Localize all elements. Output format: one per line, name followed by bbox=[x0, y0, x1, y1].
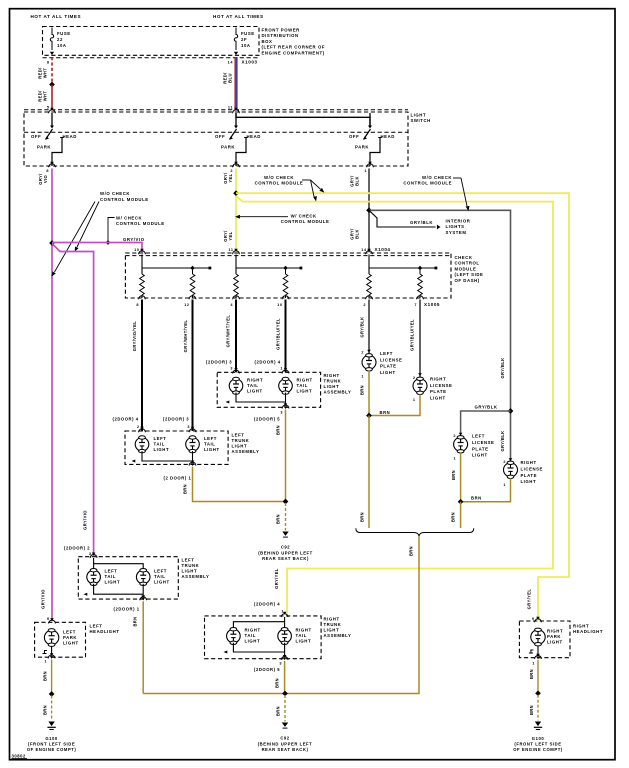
svg-text:W/O CHECK: W/O CHECK bbox=[422, 175, 452, 180]
svg-text:PARK: PARK bbox=[63, 635, 77, 640]
svg-text:1: 1 bbox=[364, 169, 367, 173]
svg-text:8: 8 bbox=[47, 61, 50, 65]
connector switch out 3 bbox=[367, 164, 374, 167]
svg-text:INTERIOR: INTERIOR bbox=[446, 219, 471, 224]
wire GRY/VIO from switch bbox=[51, 169, 53, 622]
node yellow tee bbox=[233, 190, 239, 196]
connector entry arrowheads bbox=[50, 108, 540, 660]
svg-text:LIGHT: LIGHT bbox=[411, 113, 427, 118]
svg-text:GRY/YEL: GRY/YEL bbox=[527, 589, 532, 610]
svg-text:FUSE: FUSE bbox=[57, 31, 71, 36]
svg-text:LIGHT: LIGHT bbox=[324, 628, 340, 633]
wire GRY/YEL from switch bbox=[235, 169, 237, 253]
svg-text:BRN: BRN bbox=[275, 678, 280, 688]
wire GRY/VIO branch to left trunk bbox=[52, 244, 94, 557]
svg-text:LEFT: LEFT bbox=[105, 569, 118, 574]
svg-text:GRY/VIO/YEL: GRY/VIO/YEL bbox=[132, 321, 137, 352]
lamp LEFT PARK LIGHT bbox=[44, 629, 58, 647]
svg-text:BRN: BRN bbox=[409, 546, 414, 556]
wire trunk L2 internal bottom bbox=[94, 584, 144, 594]
svg-text:PARK: PARK bbox=[221, 145, 235, 150]
svg-text:SYSTEM: SYSTEM bbox=[446, 230, 467, 235]
svg-text:RIGHT: RIGHT bbox=[430, 377, 446, 382]
wire RED/WHT lower bbox=[51, 85, 53, 111]
connector switch out 1 bbox=[49, 164, 56, 167]
wire GRY/BLK from switch bbox=[368, 169, 370, 253]
svg-text:LEFT: LEFT bbox=[204, 436, 217, 441]
svg-text:GRY/BLU/YEL: GRY/BLU/YEL bbox=[410, 319, 415, 351]
resistor C2 bbox=[419, 268, 421, 274]
wire RED/WHT upper bbox=[51, 57, 53, 85]
svg-text:TAIL: TAIL bbox=[245, 633, 256, 638]
node GRY/VIO tee bbox=[49, 240, 55, 246]
wire GRY/YEL branch inner bbox=[236, 196, 553, 614]
svg-text:BRN: BRN bbox=[529, 705, 534, 715]
lamp RIGHT TAIL LIGHT 3 bbox=[227, 628, 241, 645]
connector switch out 2 bbox=[233, 164, 240, 167]
svg-text:LIGHT: LIGHT bbox=[182, 569, 198, 574]
wire BRN left ground upper bbox=[51, 659, 53, 694]
label CHECK CONTROL MODULE bbox=[455, 255, 484, 283]
svg-text:(2DOOR) 4: (2DOOR) 4 bbox=[113, 417, 139, 422]
wire switch feed to third pole bbox=[236, 113, 370, 126]
svg-text:PARK: PARK bbox=[355, 145, 369, 150]
svg-text:2: 2 bbox=[230, 169, 233, 173]
svg-text:14: 14 bbox=[228, 61, 234, 65]
svg-text:RIGHT: RIGHT bbox=[521, 460, 537, 465]
svg-text:HEAD: HEAD bbox=[63, 134, 77, 139]
lamp LEFT LICENSE PLATE LIGHT bbox=[362, 354, 376, 371]
svg-text:HOT AT ALL TIMES: HOT AT ALL TIMES bbox=[31, 14, 82, 19]
connector right headlight out bbox=[535, 656, 542, 659]
svg-text:LIGHT: LIGHT bbox=[430, 395, 446, 400]
svg-text:LIGHT: LIGHT bbox=[297, 389, 313, 394]
svg-text:BRN: BRN bbox=[133, 616, 138, 626]
svg-text:PLATE: PLATE bbox=[521, 473, 538, 478]
svg-text:LIGHT: LIGHT bbox=[380, 370, 396, 375]
connector module out pin 10 bbox=[282, 296, 289, 299]
svg-text:2: 2 bbox=[413, 376, 416, 380]
svg-text:DISTRIBUTION: DISTRIBUTION bbox=[262, 33, 299, 38]
left trunk light assembly box 2 bbox=[78, 557, 178, 599]
svg-text:PARK: PARK bbox=[547, 634, 561, 639]
svg-text:FUSE: FUSE bbox=[241, 31, 255, 36]
svg-text:(2DOOR) 4: (2DOOR) 4 bbox=[255, 360, 281, 365]
label W/O CHECK CONTROL MODULE center bbox=[255, 175, 326, 202]
svg-text:CONTROL MODULE: CONTROL MODULE bbox=[281, 219, 330, 224]
left headlight box bbox=[35, 622, 86, 657]
light switch inner dashed rail bbox=[24, 131, 408, 133]
svg-text:3: 3 bbox=[230, 367, 233, 371]
wire GRY/BLK branch to interior lights bbox=[369, 210, 436, 227]
svg-text:RIGHT: RIGHT bbox=[247, 378, 263, 383]
wire trunk R internal bbox=[236, 393, 286, 402]
svg-text:GRY/BLK: GRY/BLK bbox=[360, 316, 365, 337]
svg-text:C92: C92 bbox=[280, 736, 289, 741]
svg-text:YEL: YEL bbox=[228, 173, 233, 182]
wire GRY/YEL branch outer bbox=[236, 193, 569, 620]
svg-text:(BEHIND UPPER LEFT: (BEHIND UPPER LEFT bbox=[258, 741, 313, 746]
node BRN license pair1 bbox=[366, 413, 372, 419]
connector module pin 14 bbox=[366, 251, 373, 254]
wire BRN to C92 bbox=[285, 503, 287, 531]
svg-text:22: 22 bbox=[57, 37, 63, 42]
svg-text:CHECK: CHECK bbox=[455, 255, 473, 260]
svg-text:30802: 30802 bbox=[12, 754, 27, 759]
svg-text:TAIL: TAIL bbox=[204, 442, 215, 447]
resistor A2 bbox=[192, 268, 194, 274]
label W/O CHECK CONTROL MODULE right bbox=[403, 175, 470, 212]
svg-text:ASSEMBLY: ASSEMBLY bbox=[324, 390, 352, 395]
svg-text:GRY/BLK: GRY/BLK bbox=[475, 405, 498, 410]
connector module pin 11 bbox=[233, 251, 240, 254]
svg-text:WHT: WHT bbox=[43, 68, 48, 79]
wire BRN license D down bbox=[461, 478, 511, 501]
svg-text:CONTROL MODULE: CONTROL MODULE bbox=[100, 197, 149, 202]
svg-text:X1004: X1004 bbox=[375, 247, 391, 252]
svg-text:1: 1 bbox=[44, 660, 47, 664]
svg-text:9: 9 bbox=[47, 617, 50, 621]
svg-text:OF ENGINE COMPT): OF ENGINE COMPT) bbox=[513, 747, 563, 752]
svg-text:(FRONT LEFT SIDE: (FRONT LEFT SIDE bbox=[28, 742, 75, 747]
svg-text:TAIL: TAIL bbox=[154, 442, 165, 447]
svg-text:2: 2 bbox=[361, 351, 364, 355]
connector module out pin 4 bbox=[233, 296, 240, 299]
wire trunk R2 internal bottom bbox=[233, 643, 284, 652]
svg-text:(2DOOR) 3: (2DOOR) 3 bbox=[206, 360, 232, 365]
svg-text:(2DOOR) 5: (2DOOR) 5 bbox=[254, 667, 280, 672]
svg-text:CONTROL: CONTROL bbox=[455, 261, 480, 266]
svg-text:10A: 10A bbox=[241, 43, 251, 48]
svg-text:11: 11 bbox=[228, 248, 233, 252]
svg-text:LIGHT: LIGHT bbox=[472, 453, 488, 458]
svg-text:BRN: BRN bbox=[451, 512, 456, 522]
svg-text:GRY/WHT/YEL: GRY/WHT/YEL bbox=[183, 320, 188, 353]
svg-text:11: 11 bbox=[228, 106, 233, 110]
svg-text:VIO: VIO bbox=[43, 174, 48, 183]
connector trunk R out bbox=[282, 405, 289, 408]
svg-text:OFF: OFF bbox=[349, 134, 359, 139]
connector trunk L out bbox=[189, 462, 196, 465]
svg-text:(FRONT LEFT SIDE: (FRONT LEFT SIDE bbox=[514, 742, 561, 747]
connector left headlight in bbox=[49, 620, 56, 623]
svg-text:1: 1 bbox=[413, 398, 416, 402]
svg-text:PLATE: PLATE bbox=[430, 389, 447, 394]
svg-text:BRN: BRN bbox=[529, 669, 534, 679]
lamp LEFT TAIL LIGHT 3 bbox=[87, 569, 101, 586]
svg-text:GRY/BLK: GRY/BLK bbox=[410, 220, 433, 225]
wire GRY/BLK to license lights bbox=[369, 210, 511, 462]
svg-text:10A: 10A bbox=[57, 43, 67, 48]
svg-text:LICENSE: LICENSE bbox=[430, 383, 452, 388]
svg-text:2: 2 bbox=[363, 303, 366, 307]
node BRN license pair2 bbox=[458, 499, 464, 505]
svg-text:LIGHT: LIGHT bbox=[247, 389, 263, 394]
lamp RIGHT LICENSE PLATE LIGHT 2 bbox=[504, 461, 518, 478]
svg-text:(2DOOR) 2: (2DOOR) 2 bbox=[64, 546, 90, 551]
svg-text:3: 3 bbox=[280, 411, 283, 415]
svg-text:LEFT: LEFT bbox=[380, 351, 393, 356]
ground G100 right bbox=[535, 722, 541, 727]
svg-text:MODULE: MODULE bbox=[455, 266, 477, 271]
svg-text:PLATE: PLATE bbox=[472, 446, 489, 451]
svg-text:W/ CHECK: W/ CHECK bbox=[116, 216, 142, 221]
wire trunk L internal bbox=[142, 451, 193, 461]
left trunk light assembly box bbox=[125, 431, 228, 464]
switch pole 3 bbox=[349, 113, 395, 166]
wire BRN to C92 2 bbox=[284, 695, 286, 722]
splice node bbox=[49, 82, 55, 88]
right headlight box bbox=[519, 621, 570, 658]
svg-text:LICENSE: LICENSE bbox=[380, 357, 402, 362]
svg-text:RIGHT: RIGHT bbox=[297, 378, 313, 383]
svg-text:LEFT: LEFT bbox=[182, 558, 195, 563]
svg-text:TAIL: TAIL bbox=[247, 383, 258, 388]
connector trunk R2 out bbox=[281, 657, 288, 660]
connector trunk R in 1 bbox=[233, 370, 240, 373]
node GRY/BLK tee bbox=[366, 207, 372, 213]
svg-text:9: 9 bbox=[532, 617, 535, 621]
lamp LEFT TAIL LIGHT 1 bbox=[135, 436, 149, 453]
svg-text:GRY/BLU/YEL: GRY/BLU/YEL bbox=[276, 318, 281, 350]
svg-text:BRN: BRN bbox=[43, 671, 48, 681]
svg-text:FRONT POWER: FRONT POWER bbox=[262, 28, 301, 33]
svg-text:GRY/BLK: GRY/BLK bbox=[500, 357, 505, 378]
svg-text:LEFT: LEFT bbox=[90, 624, 103, 629]
svg-text:W/O CHECK: W/O CHECK bbox=[100, 191, 130, 196]
brace collecting BRN bbox=[356, 528, 474, 536]
module internal bus A bbox=[141, 255, 143, 275]
wire BRN from brace bbox=[143, 536, 419, 694]
connector trunk R2 in bbox=[281, 614, 288, 617]
light switch box bbox=[24, 112, 408, 166]
wire BRN license A down bbox=[368, 371, 370, 416]
svg-text:GRY/VIO: GRY/VIO bbox=[41, 589, 46, 609]
connector C92 bbox=[282, 532, 288, 536]
svg-text:1: 1 bbox=[361, 375, 364, 379]
svg-text:CONTROL MODULE: CONTROL MODULE bbox=[255, 181, 304, 186]
svg-text:OFF: OFF bbox=[31, 134, 41, 139]
svg-text:W/ CHECK: W/ CHECK bbox=[291, 214, 317, 219]
svg-text:TRUNK: TRUNK bbox=[324, 379, 342, 384]
svg-text:TRUNK: TRUNK bbox=[324, 622, 342, 627]
wire BRN license C down bbox=[460, 453, 462, 502]
svg-text:G100: G100 bbox=[532, 736, 545, 741]
svg-text:RIGHT: RIGHT bbox=[245, 628, 261, 633]
wire BRN right ground upper bbox=[537, 660, 539, 693]
resistor B1 bbox=[234, 274, 239, 295]
right trunk light assembly box 2 bbox=[205, 616, 322, 659]
node bus B tap bbox=[283, 266, 288, 271]
svg-text:1: 1 bbox=[453, 457, 456, 461]
wire left park lamp out bbox=[45, 651, 48, 654]
wire GRY/BLU/YEL bbox=[419, 300, 421, 378]
connector trunk L in 2 bbox=[189, 429, 196, 432]
svg-text:HOT AT ALL TIMES: HOT AT ALL TIMES bbox=[213, 14, 264, 19]
svg-text:(LEFT SIDE: (LEFT SIDE bbox=[455, 272, 484, 277]
svg-text:BLK: BLK bbox=[355, 229, 360, 239]
connector row module top bbox=[125, 255, 451, 257]
svg-text:LIGHT: LIGHT bbox=[245, 639, 261, 644]
svg-text:RIGHT: RIGHT bbox=[324, 617, 340, 622]
svg-text:PARK: PARK bbox=[37, 145, 51, 150]
connector right headlight in bbox=[535, 619, 542, 622]
svg-text:BLK: BLK bbox=[355, 176, 360, 186]
svg-text:CONTROL MODULE: CONTROL MODULE bbox=[403, 181, 452, 186]
svg-text:3: 3 bbox=[187, 425, 190, 429]
svg-text:C92: C92 bbox=[281, 545, 290, 550]
svg-text:BRN: BRN bbox=[43, 705, 48, 715]
svg-text:X1003: X1003 bbox=[242, 60, 258, 65]
svg-text:BRN: BRN bbox=[380, 410, 391, 415]
svg-text:2: 2 bbox=[453, 434, 456, 438]
svg-text:BRN: BRN bbox=[276, 706, 281, 716]
svg-text:LEFT: LEFT bbox=[154, 436, 167, 441]
svg-text:LIGHT: LIGHT bbox=[521, 479, 537, 484]
svg-text:TAIL: TAIL bbox=[297, 383, 308, 388]
wire GRY/VIO/YEL bbox=[141, 300, 143, 432]
svg-text:BRN: BRN bbox=[276, 425, 281, 435]
svg-text:BRN: BRN bbox=[360, 385, 365, 395]
svg-text:BRN: BRN bbox=[360, 512, 365, 522]
node bus A tap bbox=[190, 266, 195, 271]
svg-text:OF ENGINE COMPT): OF ENGINE COMPT) bbox=[27, 747, 77, 752]
node bus C tap bbox=[418, 266, 423, 271]
svg-text:TAIL: TAIL bbox=[154, 574, 165, 579]
arrow to interior lights system bbox=[437, 225, 441, 230]
svg-text:(2DOOR) 1: (2DOOR) 1 bbox=[114, 607, 140, 612]
svg-text:LIGHT: LIGHT bbox=[296, 639, 312, 644]
wire BRN license B down bbox=[369, 394, 420, 415]
wire GRY/WHT/YEL bbox=[192, 300, 194, 432]
svg-text:HEAD: HEAD bbox=[247, 134, 261, 139]
svg-text:7: 7 bbox=[414, 303, 417, 307]
svg-text:2: 2 bbox=[503, 460, 506, 464]
connector row switch box top bbox=[24, 109, 408, 111]
connector module out pin 2 bbox=[366, 296, 373, 299]
fuse F2F 10A bbox=[234, 28, 255, 56]
svg-text:RIGHT: RIGHT bbox=[547, 629, 563, 634]
node BRN junction 2 bbox=[282, 691, 288, 697]
svg-text:HEADLIGHT: HEADLIGHT bbox=[573, 629, 603, 634]
label front power distribution box bbox=[262, 28, 326, 56]
ground G100 left bbox=[48, 722, 54, 727]
svg-text:ASSEMBLY: ASSEMBLY bbox=[324, 633, 352, 638]
svg-text:(LEFT REAR CORNER OF: (LEFT REAR CORNER OF bbox=[262, 45, 326, 50]
wire GRY/BLU/YEL bbox=[285, 300, 287, 373]
svg-text:ENGINE COMPARTMENT): ENGINE COMPARTMENT) bbox=[262, 50, 325, 55]
wire RED/BLU bbox=[234, 57, 236, 110]
check control module box bbox=[125, 253, 451, 298]
connector trunk L2 in bbox=[90, 555, 97, 558]
svg-text:LEFT: LEFT bbox=[63, 630, 76, 635]
svg-text:TRUNK: TRUNK bbox=[232, 438, 250, 443]
svg-text:8: 8 bbox=[46, 169, 49, 173]
svg-text:HEAD: HEAD bbox=[381, 134, 395, 139]
wire GRY/BLK bbox=[368, 300, 370, 354]
svg-text:8: 8 bbox=[136, 303, 139, 307]
svg-text:2F: 2F bbox=[241, 37, 247, 42]
wire BRN pair2 to brace bbox=[460, 502, 462, 528]
connector C92 2 bbox=[282, 723, 288, 727]
connector module pin 10 bbox=[139, 251, 146, 254]
connector at switch pin 5 bbox=[49, 110, 56, 113]
svg-text:4: 4 bbox=[230, 303, 233, 307]
module internal bus B bbox=[235, 255, 237, 275]
svg-text:ASSEMBLY: ASSEMBLY bbox=[232, 449, 260, 454]
connector at switch pin 11 bbox=[233, 110, 240, 113]
wire BRN trunk R2 bbox=[284, 661, 286, 694]
resistor B2 bbox=[285, 268, 287, 274]
svg-text:SWITCH: SWITCH bbox=[411, 118, 431, 123]
wire trunk R2 internal top bbox=[284, 617, 286, 629]
svg-text:ASSEMBLY: ASSEMBLY bbox=[182, 574, 210, 579]
wire trunk L2 internal top bbox=[93, 558, 95, 570]
lamp RIGHT TAIL LIGHT 2 bbox=[279, 377, 293, 394]
lamp RIGHT TAIL LIGHT 1 bbox=[229, 377, 243, 394]
svg-text:LEFT: LEFT bbox=[472, 434, 485, 439]
connector trunk L in 1 bbox=[139, 429, 146, 432]
svg-text:TAIL: TAIL bbox=[296, 633, 307, 638]
svg-text:GRY/YEL: GRY/YEL bbox=[274, 568, 279, 589]
svg-text:GRY/VIO: GRY/VIO bbox=[83, 510, 88, 530]
svg-text:LICENSE: LICENSE bbox=[521, 467, 543, 472]
right trunk light assembly box bbox=[217, 372, 320, 407]
svg-text:LIGHT: LIGHT bbox=[232, 444, 248, 449]
label W/ CHECK CONTROL MODULE center bbox=[235, 214, 329, 225]
svg-text:14: 14 bbox=[361, 248, 367, 252]
module internal bus C bbox=[368, 255, 370, 275]
svg-text:OFF: OFF bbox=[215, 134, 225, 139]
front power distribution box bbox=[43, 27, 260, 56]
svg-text:1: 1 bbox=[532, 662, 535, 666]
svg-text:LIGHT: LIGHT bbox=[154, 447, 170, 452]
connector module out pin 7 bbox=[417, 296, 424, 299]
svg-text:LICENSE: LICENSE bbox=[472, 440, 494, 445]
wire BRN trunk R bbox=[285, 410, 287, 502]
connector trunk L2 out bbox=[140, 597, 147, 600]
switch pole 1 bbox=[31, 113, 77, 166]
svg-text:BRN: BRN bbox=[451, 470, 456, 480]
resistor A1 bbox=[140, 274, 145, 295]
svg-text:BRN: BRN bbox=[183, 484, 188, 494]
svg-text:LIGHT: LIGHT bbox=[204, 447, 220, 452]
svg-text:1: 1 bbox=[503, 483, 506, 487]
svg-text:W/O CHECK: W/O CHECK bbox=[264, 175, 294, 180]
svg-text:TAIL: TAIL bbox=[105, 574, 116, 579]
svg-text:LIGHTS: LIGHTS bbox=[446, 224, 465, 229]
svg-text:YEL: YEL bbox=[228, 231, 233, 240]
svg-text:X1005: X1005 bbox=[424, 302, 440, 307]
wire GRY/BLK to left license 2 bbox=[461, 411, 511, 437]
svg-text:LEFT: LEFT bbox=[154, 569, 167, 574]
node BRN junction bbox=[283, 499, 289, 505]
svg-text:REAR SEAT BACK): REAR SEAT BACK) bbox=[262, 556, 309, 561]
connector module out pin 12 bbox=[189, 296, 196, 299]
resistor C1 bbox=[367, 274, 372, 295]
svg-text:LEFT: LEFT bbox=[232, 433, 245, 438]
wire GRY/WHT/YEL bbox=[235, 300, 237, 373]
lamp RIGHT TAIL LIGHT 4 bbox=[278, 628, 292, 645]
wire BRN right ground lower bbox=[537, 695, 539, 721]
svg-text:1: 1 bbox=[281, 610, 284, 614]
lamp LEFT LICENSE PLATE LIGHT 2 bbox=[454, 436, 468, 453]
switch pole 2 bbox=[215, 113, 261, 166]
svg-text:BLU: BLU bbox=[228, 73, 233, 83]
wire BRN trunk L2 bbox=[142, 601, 144, 693]
fuse F22 10A bbox=[50, 28, 71, 56]
svg-text:RIGHT: RIGHT bbox=[324, 373, 340, 378]
